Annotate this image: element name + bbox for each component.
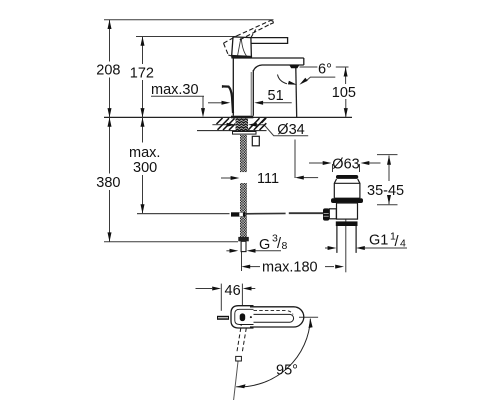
mounting surface line [104,116,352,118]
mounting stud nut [252,136,259,146]
G38 leader [255,250,281,252]
dim46 extension lines [220,284,222,311]
faucet body [233,58,303,116]
arrow max30 [201,108,205,117]
arrow 46 right [243,287,252,291]
swivel ref line [299,316,318,318]
extension line hose-end ref [104,241,238,243]
drain neck [334,179,360,198]
dimension 208 line [109,20,111,62]
handle lever blade [251,38,288,44]
arrow 51 right [254,101,263,105]
arrow 111 left [231,176,240,180]
angle6 arc [278,75,288,84]
arrow 35-45 bottom [387,195,391,204]
swivel dashed lines [237,328,246,352]
top view: handle capsule [250,307,304,327]
top view: rod stub [217,316,229,320]
dimension max300 line [142,117,144,142]
svg-text:8: 8 [282,240,288,252]
dia34 leader right [256,125,309,136]
arrow max180 left [241,265,250,269]
outlet axis extension [294,140,296,179]
arrow G114 right [356,246,365,250]
arrow swivel top [309,319,313,328]
arrow G38 left [230,249,239,253]
svg-text:105: 105 [332,85,356,101]
arrow 208 bottom [108,108,112,117]
top view: handle inner [254,314,294,322]
G114 leader [364,247,407,249]
arrow swivel bottom [236,384,245,388]
spout stream line [295,68,298,117]
washer under deck [233,132,257,135]
drain boss [329,209,336,219]
extension line drain-depth ref [137,213,230,215]
arrow dia63 left [323,161,332,165]
arrow dia34 right [248,123,257,127]
svg-text:4: 4 [400,238,406,250]
arrow 380 bottom [108,232,112,241]
drain nut [336,221,358,226]
svg-text:111: 111 [257,171,279,187]
dimension 105 line [345,67,347,84]
top view: cartridge oval [240,313,246,321]
svg-text:380: 380 [96,175,120,191]
dim35-45 line [388,156,390,182]
rod clamp [231,212,245,216]
threaded shank [236,118,249,130]
svg-text:max.180: max.180 [262,260,318,276]
arrow 111 right [295,176,304,180]
arrow 380 top [108,117,112,126]
max180 dim line [250,266,260,268]
hub inner lines [238,38,248,58]
top view: screw dots [250,316,252,318]
svg-text:G: G [259,237,270,253]
swivel arc 95 [236,319,310,387]
rotated handle centerline [234,362,238,400]
body inner contour [250,72,252,116]
dashed raised handle [224,21,274,58]
drain cap [336,175,358,179]
drain body [337,203,358,219]
G38 hex nut [238,237,249,241]
arrow 172 top [141,37,145,46]
arrow dia34 left [227,123,236,127]
horizontal rod mid [245,212,285,214]
angle6 dimension tail [306,77,335,81]
arrow max180 right [335,265,344,269]
arrow angle6 left [288,81,297,85]
dim35-45 bottom extension [377,204,398,206]
top view: dashed hidden [254,311,294,315]
horizontal rod right [289,212,324,214]
dim111 right tail [304,177,319,179]
arrow 105 top [344,67,348,76]
dia34 leader left [212,124,228,126]
hose-end extension for max180 [241,247,243,271]
max30 leader [151,96,204,110]
svg-text:Ø34: Ø34 [277,122,304,138]
dia63 left arrow tail [309,162,323,164]
svg-text:208: 208 [96,63,120,79]
angle6 reference line [300,66,349,68]
arrow G38 right [247,249,256,253]
supply hose upper [240,134,247,172]
drain knob [323,208,329,220]
dim46 left arrow tail [196,288,213,290]
pop-up rod [223,86,234,113]
svg-text:46: 46 [225,283,241,299]
deck slab bottom line [197,130,267,132]
arrow 51 left [222,101,231,105]
svg-text:6°: 6° [318,61,332,77]
svg-text:Ø63: Ø63 [332,156,359,172]
spout aerator [290,65,300,68]
dia63 right arrow tail [369,162,381,164]
svg-text:172: 172 [130,65,154,81]
dim35-45 top extension [377,154,398,156]
supply hose lower [240,183,247,237]
drain centerline [345,217,347,272]
arrow 208 top [108,20,112,29]
svg-text:G1: G1 [369,232,388,248]
arrow 105 bottom [344,108,348,117]
dimension 172 line [142,37,144,65]
body base plate [231,116,253,119]
arrow 172 bottom [141,108,145,117]
handle hub [232,37,252,58]
arrow angle6 right [299,78,307,85]
horizontal rod left [137,213,230,215]
dim111 left tail [221,177,231,179]
hub base wedge [232,56,252,58]
arrow G114 left [328,246,337,250]
deck hatch left [217,118,236,130]
extension line handle ref [136,36,236,38]
dim46 right arrow tail [252,288,256,290]
G38 tailpiece [241,241,246,251]
svg-text:51: 51 [268,88,284,104]
dia63 extension ticks [332,164,334,172]
extension line spout-top ref [104,19,274,21]
drain flange [331,198,363,203]
deck hatch right [248,118,266,130]
svg-text:95°: 95° [276,363,298,379]
dim51 right tail [262,102,292,104]
arrow 46 left [212,287,221,291]
rotated handle end box [236,356,242,361]
svg-text:max.: max. [129,145,160,161]
svg-text:35-45: 35-45 [367,183,404,199]
dimension 380 line [109,117,111,173]
arrow dia63 right [361,161,370,165]
arrow 35-45 top [387,156,391,165]
G38 left arrow tail [226,250,230,252]
arrow max300 top [141,117,145,126]
top view: body [231,306,304,328]
arrow max300 bottom [141,204,145,213]
svg-text:max.30: max.30 [151,82,199,98]
dim51 left tail [208,102,223,104]
drain tailpipe [337,226,356,253]
svg-text:300: 300 [133,160,157,176]
